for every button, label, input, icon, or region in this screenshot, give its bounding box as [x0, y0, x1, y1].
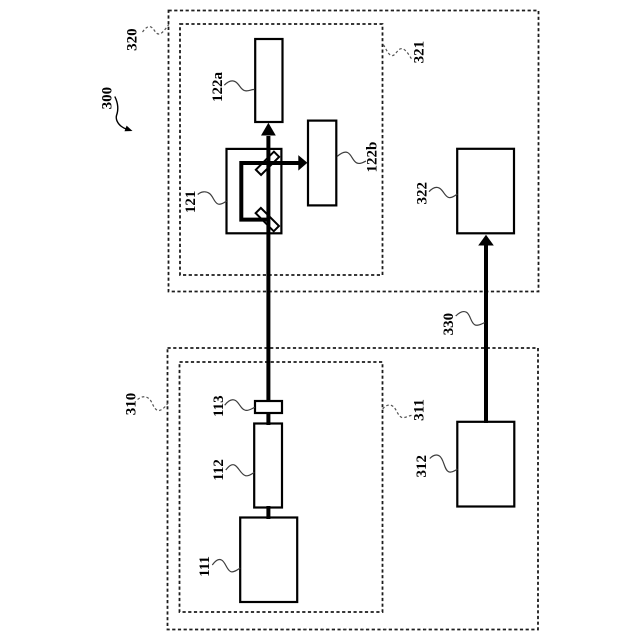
block 121 (beam-splitter housing) [227, 149, 282, 233]
leader squiggle for 122b [337, 152, 366, 163]
leader squiggle for 330 [456, 312, 485, 326]
dashed box 321 (inner upper unit) [180, 24, 383, 275]
wire: main beam 113 up to 122a [266, 136, 270, 402]
block 312 [457, 422, 514, 507]
wire: beam segment 111 to 112 [266, 506, 270, 519]
svg-text:312: 312 [414, 455, 430, 478]
svg-text:310: 310 [123, 393, 139, 416]
leader arrow for 300 [115, 97, 126, 129]
svg-text:311: 311 [411, 399, 427, 421]
svg-text:321: 321 [412, 41, 428, 64]
block 122b [308, 121, 336, 206]
arrowhead into 122b [298, 155, 307, 171]
block 111 [240, 518, 297, 603]
leader squiggle for 320 [143, 25, 169, 35]
svg-text:322: 322 [415, 182, 431, 205]
dashed box 310 (outer lower unit) [168, 348, 539, 630]
mirror (lower fold mirror, 45deg) [256, 208, 279, 231]
block 322 [457, 149, 514, 234]
dashed box 320 (outer upper unit) [169, 11, 539, 292]
svg-text:112: 112 [211, 459, 227, 481]
leader squiggle for 122a [224, 81, 254, 91]
svg-text:122a: 122a [210, 72, 226, 103]
leader squiggle for 311 [383, 405, 413, 418]
leader squiggle for 111 [212, 560, 240, 572]
leader squiggle for 113 [225, 400, 255, 411]
block 113 [255, 401, 282, 413]
leader squiggle for 321 [383, 45, 411, 59]
leader squiggle for 310 [138, 397, 168, 411]
svg-text:330: 330 [441, 313, 457, 336]
wire: arrow 330 from 312 to 322 [484, 245, 488, 423]
leader squiggle for 112 [226, 465, 254, 476]
mirror (upper beam splitter, 45deg) [256, 152, 279, 175]
block 112 [254, 424, 282, 508]
svg-text:320: 320 [125, 28, 141, 51]
leader squiggle for 312 [430, 455, 458, 472]
wire: beam segment 112 to 113 [266, 412, 270, 425]
dashed box 311 (inner lower unit) [180, 362, 383, 612]
arrowhead into 322 [478, 235, 494, 246]
svg-text:113: 113 [211, 395, 227, 417]
leader squiggle for 121 [198, 192, 227, 204]
svg-text:300: 300 [100, 87, 116, 110]
arrowhead into 122a [261, 123, 276, 136]
leader squiggle for 322 [429, 187, 457, 197]
block 122a [255, 39, 282, 122]
svg-text:121: 121 [183, 191, 199, 214]
svg-text:122b: 122b [364, 142, 380, 173]
svg-text:111: 111 [197, 556, 213, 577]
wire: folded beam path inside 121 [241, 163, 299, 220]
